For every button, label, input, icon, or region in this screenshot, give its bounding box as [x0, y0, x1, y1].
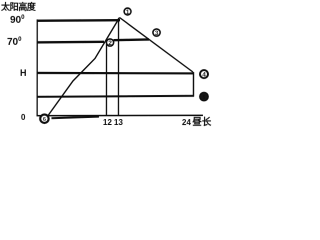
- y-axis: [36, 19, 38, 116]
- 90 degree gridline: [37, 19, 120, 22]
- marker 6: [40, 115, 48, 123]
- svg-text:2: 2: [108, 40, 112, 47]
- rising solar altitude line: [46, 17, 120, 118]
- svg-text:5: 5: [203, 95, 206, 101]
- lower gridline: [37, 96, 194, 97]
- svg-text:1: 1: [126, 9, 130, 16]
- marker 3: [153, 29, 160, 37]
- right vertical connector: [192, 72, 194, 96]
- svg-text:12: 12: [103, 118, 112, 127]
- svg-text:24昼长: 24昼长: [182, 116, 212, 128]
- marker 5: [200, 92, 208, 101]
- 70 degree gridline left of marker 2: [37, 41, 104, 44]
- marker 1: [124, 8, 131, 16]
- marker 2: [106, 39, 113, 47]
- falling solar altitude line: [119, 18, 193, 73]
- vertical line at 13: [117, 18, 119, 116]
- svg-text:0: 0: [21, 113, 26, 122]
- thick x-axis overlay segment: [51, 117, 99, 119]
- marker 4: [200, 70, 208, 79]
- svg-text:4: 4: [202, 72, 206, 79]
- svg-text:H: H: [20, 68, 27, 78]
- 70 degree gridline right of marker 2: [114, 38, 150, 41]
- H gridline: [37, 72, 194, 75]
- svg-text:13: 13: [114, 118, 123, 127]
- svg-text:3: 3: [155, 30, 159, 37]
- vertical line at 12: [105, 44, 107, 116]
- x-axis: [37, 114, 203, 117]
- svg-text:太阳高度: 太阳高度: [0, 1, 37, 12]
